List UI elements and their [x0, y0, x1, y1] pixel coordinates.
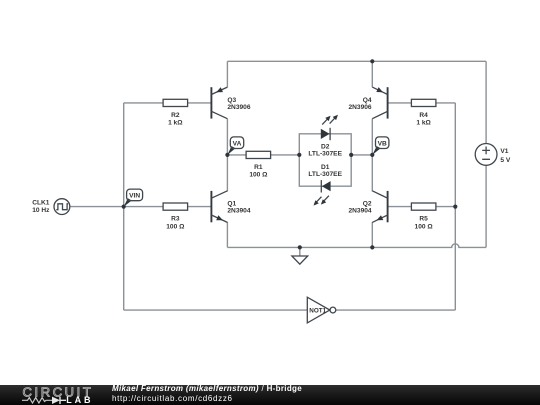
wire Q4 emitter to rail	[371, 61, 373, 87]
wire LED loop rectangle	[299, 134, 351, 186]
transistor Q3 (2N3906)	[211, 87, 250, 119]
wire VA to R1	[227, 154, 246, 156]
node VIN label	[124, 189, 143, 207]
wire R4 to right vertical	[436, 102, 455, 104]
node VA label	[227, 137, 243, 155]
wire V1 bottom lead	[485, 165, 487, 247]
footer bar	[0, 385, 540, 405]
wire lower-left base net	[124, 206, 212, 208]
inverter NOT1	[307, 297, 336, 323]
junction node dot 9	[370, 245, 374, 249]
wire Q1 emitter to rail	[226, 222, 228, 247]
junction node dot 1	[370, 59, 374, 63]
junction node dot 5	[370, 153, 374, 157]
wire LED box to VB	[351, 154, 372, 156]
diode D2 LED (top of loop)	[308, 115, 342, 158]
resistor R4	[411, 99, 436, 126]
wire bottom rail (hops over right vertical)	[227, 244, 486, 248]
node VB label	[372, 137, 389, 155]
wire NOT1 output	[336, 309, 456, 311]
junction node dot 7	[453, 205, 457, 209]
wire upper-left base net	[124, 102, 212, 104]
wire right vertical (NOT output net)	[454, 103, 456, 310]
voltage source V1 5 V	[475, 144, 511, 166]
transistor Q4 (2N3906)	[348, 87, 387, 119]
ground	[292, 256, 308, 264]
junction node dot 4	[349, 153, 353, 157]
wire CLK1 to VIN node	[70, 206, 124, 208]
wire Q2 emitter to rail	[371, 222, 373, 247]
wire R1 to LED box	[271, 154, 300, 156]
wire Q3 collector to Q1 collector (VA vertical)	[226, 119, 228, 192]
junction node dot 8	[298, 245, 302, 249]
transistor Q2 (2N3904)	[348, 191, 387, 223]
wire ground stub	[299, 247, 301, 256]
wire Q4 base to R4	[388, 102, 412, 104]
footer url line	[112, 394, 233, 403]
wire R5 to right vertical	[436, 206, 455, 208]
diode D1 LED (bottom of loop)	[308, 164, 342, 206]
resistor R1	[246, 151, 271, 178]
wire V1 top lead	[485, 61, 487, 143]
CircuitLab logo LAB	[66, 395, 93, 405]
wire Q2 base to R5	[388, 206, 412, 208]
junction node dot 6	[122, 205, 126, 209]
junction node dot 2	[225, 153, 229, 157]
wire Q4 collector to Q2 collector (VB vertical)	[371, 119, 373, 192]
wire left vertical (VIN net)	[123, 103, 125, 310]
footer attribution line	[112, 384, 302, 393]
junction node dot 3	[297, 153, 301, 157]
resistor R2	[163, 99, 188, 126]
wire Q3 emitter to rail	[226, 61, 228, 87]
transistor Q1 (2N3904)	[211, 191, 250, 223]
resistor R5	[411, 203, 436, 230]
wire top rail	[227, 60, 486, 62]
clock source CLK1 10 Hz	[32, 199, 70, 215]
resistor R3	[163, 203, 188, 230]
wire NOT1 input	[124, 309, 308, 311]
